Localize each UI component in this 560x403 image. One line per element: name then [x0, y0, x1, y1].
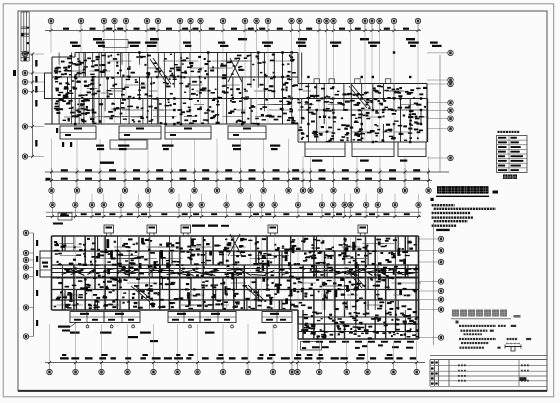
stair diagonal A [150, 59, 168, 85]
bottom axis row upper plan [49, 188, 54, 193]
top axis row [45, 30, 421, 32]
section detail sketch [505, 346, 521, 348]
roof stubs above lower plan [104, 225, 114, 233]
small box between plans left [58, 213, 72, 220]
wing bump [45, 73, 53, 99]
right axis column upper plan [439, 55, 441, 172]
right extension interior [298, 316, 419, 318]
drawing number stamp [520, 377, 527, 380]
upper floor plan outline [75, 52, 298, 54]
drain circles [86, 325, 89, 328]
lower plan interior grid [52, 250, 419, 252]
top axis row lower plan [46, 211, 421, 213]
stair diagonal B [228, 58, 240, 82]
upper plan labels [174, 64, 178, 65]
leader label bottom-left lower plan [58, 326, 70, 328]
right axis column lower plan [433, 223, 435, 345]
stair diagonal D [228, 234, 240, 256]
interior axis grid lines lower [74, 236, 76, 310]
notes under title 2 [456, 321, 459, 324]
title block [430, 354, 547, 356]
beam section table [498, 131, 500, 133]
title: 6th floor structure plan (fake glyphs) [452, 310, 459, 317]
revision table strip [20, 12, 22, 61]
stair diagonal C [349, 86, 367, 108]
lower floor plan outline [52, 235, 419, 237]
balconies lower plan [70, 312, 104, 323]
balconies upper plan [60, 126, 96, 139]
left axis column upper plan [32, 54, 34, 157]
stair diagonal E [131, 286, 150, 302]
left axis column lower plan [33, 233, 35, 337]
bottom dimension line lower plan [45, 362, 425, 364]
interior axis grid lines upper [80, 53, 82, 125]
notes under title 1 [431, 198, 434, 201]
title block texts [458, 364, 460, 366]
upper plan interior [52, 76, 298, 78]
lower plan labels [96, 273, 100, 274]
axis label text left margin [13, 70, 16, 76]
stair diagonal F [245, 286, 262, 302]
upper plan bottom dimension lines [45, 171, 449, 173]
stair diagonal G [348, 272, 362, 288]
title: 6th floor beam plan (fake glyphs) [437, 186, 444, 193]
bottom axis row lower plan circles [47, 369, 52, 374]
label row above lower plan [192, 225, 205, 227]
table caption [503, 175, 507, 179]
axis grid lines upper [50, 24, 52, 53]
left protrusion [40, 251, 52, 277]
